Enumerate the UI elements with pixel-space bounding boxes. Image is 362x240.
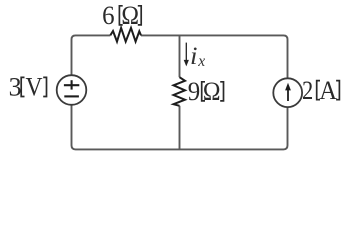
bracket ] of 9 label	[220, 82, 223, 101]
resistor R1 value label 6 [Ohm]	[102, 0, 115, 30]
current source arrow	[287, 89, 289, 102]
omega of 6 label	[121, 2, 139, 30]
svg-text:2: 2	[302, 76, 313, 105]
voltage source V1 circle	[57, 75, 87, 105]
current source I1 circle	[273, 78, 302, 107]
current label x subscript	[197, 53, 205, 70]
svg-text:Ω: Ω	[203, 78, 221, 106]
bracket ] of 6 label	[138, 6, 141, 25]
svg-text:i: i	[190, 42, 198, 70]
voltage source label 3 [V]	[9, 72, 22, 101]
svg-text:9: 9	[188, 76, 200, 106]
bracket [ of 9 label	[202, 82, 205, 101]
wire top-right segment	[141, 35, 288, 78]
svg-text:x: x	[197, 53, 205, 70]
wire middle-bottom segment	[179, 106, 181, 150]
svg-text:V: V	[26, 74, 43, 103]
wire top-left segment	[72, 35, 111, 75]
wire bottom-right segment	[180, 107, 288, 149]
voltage source plus-minus symbol	[64, 84, 79, 86]
omega of 9 label	[203, 78, 221, 106]
A letter of 2 label	[319, 75, 337, 105]
bracket ] of 3 label	[43, 77, 46, 96]
resistor R2 9 Ohm zigzag	[174, 77, 186, 106]
bracket [ of 6 label	[119, 6, 122, 25]
resistor R2 value label 9 [Ohm]	[188, 76, 200, 106]
wire middle-top segment	[179, 35, 181, 77]
current source label 2 [A]	[302, 76, 313, 105]
wire left-bottom segment	[72, 105, 180, 150]
svg-text:A: A	[319, 75, 337, 105]
bracket [ of 3 label	[21, 77, 24, 96]
bracket [ of 2 label	[317, 81, 320, 100]
current label i	[190, 42, 198, 70]
svg-text:6: 6	[102, 0, 115, 30]
bracket ] of 2 label	[336, 81, 339, 100]
V letter of 3 label	[26, 74, 43, 103]
svg-text:Ω: Ω	[121, 2, 139, 30]
svg-text:3: 3	[9, 72, 22, 101]
resistor R1 6 Ohm zigzag	[110, 28, 141, 42]
current arrow ix	[185, 43, 187, 62]
